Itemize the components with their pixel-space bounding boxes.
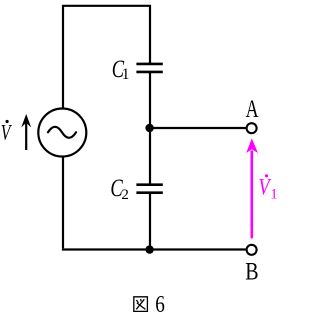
capacitor C2 bbox=[136, 185, 162, 193]
capacitor C1 bbox=[136, 64, 162, 72]
label V1 (magenta) bbox=[258, 173, 277, 202]
svg-text:V: V bbox=[1, 121, 13, 145]
label C2 bbox=[110, 173, 128, 203]
label C1 bbox=[112, 54, 130, 83]
node junction upper bbox=[145, 124, 153, 132]
label B bbox=[245, 257, 258, 285]
terminal B (open circle) bbox=[247, 245, 257, 255]
caption 図 6 bbox=[134, 291, 165, 317]
svg-text:1: 1 bbox=[270, 186, 278, 202]
wire: node to C2 bbox=[149, 128, 151, 185]
wire: bottom horizontal bbox=[62, 248, 246, 250]
node junction lower bbox=[145, 245, 153, 253]
svg-text:6: 6 bbox=[155, 291, 165, 317]
svg-text:B: B bbox=[245, 257, 258, 285]
wire: C2 bottom to bottom node bbox=[149, 193, 151, 250]
svg-text:1: 1 bbox=[122, 66, 130, 83]
AC voltage source bbox=[38, 109, 86, 157]
svg-text:2: 2 bbox=[121, 187, 128, 203]
label A bbox=[246, 95, 259, 123]
wire: node to terminal A bbox=[150, 127, 246, 129]
arrow for V (black up arrow) bbox=[21, 114, 31, 150]
wire top loop: left vertical, top horizontal, right vertical to C1 bbox=[63, 6, 150, 108]
wire: C1 bottom to node bbox=[149, 72, 151, 128]
terminal A (open circle) bbox=[247, 123, 257, 133]
wire: left vertical below source bbox=[62, 157, 64, 249]
arrow V1 (magenta up arrow from B to A) bbox=[246, 138, 258, 238]
svg-text:A: A bbox=[246, 95, 259, 123]
label V (source voltage) bbox=[1, 120, 13, 145]
